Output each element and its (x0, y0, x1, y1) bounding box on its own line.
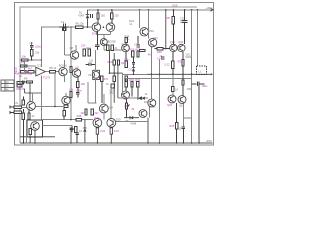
svg-text:10R: 10R (187, 87, 192, 91)
transistor Q22 (93, 116, 102, 127)
node dots feedback wire (41, 26, 89, 60)
svg-text:R26: R26 (130, 47, 135, 51)
svg-text:R14: R14 (86, 46, 91, 50)
svg-text:R20: R20 (108, 60, 113, 64)
label R24 gray (129, 19, 134, 26)
diode D1 column (78, 10, 89, 27)
wire input to Q5 (22, 107, 27, 109)
transistor Q9 (72, 65, 80, 77)
border frame outer (15, 3, 214, 146)
resistor R18 (111, 10, 120, 23)
svg-text:Q13: Q13 (153, 36, 158, 40)
wire VR label (124, 104, 135, 111)
wire row y66 (20, 65, 36, 67)
wire Q5 collector (32, 93, 34, 103)
capacitor C16 (109, 84, 114, 95)
resistor R45 (125, 79, 127, 91)
wire Q6 collector up (54, 72, 56, 107)
resistor R13 (81, 43, 86, 55)
output bus (147, 74, 213, 76)
transistor Q19 (122, 91, 130, 99)
protection box (27, 120, 43, 137)
svg-text:-45V: -45V (206, 139, 212, 143)
svg-text:Q9: Q9 (75, 65, 79, 69)
caps bottom mid (75, 133, 78, 143)
wire bus y74.3 (123, 73, 147, 75)
transistor Q14 driver (170, 40, 177, 52)
svg-text:5200: 5200 (186, 55, 192, 59)
wire drop x165.8 (165, 10, 167, 50)
svg-text:4k7: 4k7 (148, 52, 153, 56)
svg-text:4k7: 4k7 (94, 111, 99, 115)
svg-text:22k: 22k (35, 50, 40, 54)
svg-text:BC546: BC546 (59, 64, 67, 68)
border frame inner (20, 7, 197, 143)
capacitor C13 (69, 128, 72, 144)
svg-text:C14: C14 (157, 56, 162, 60)
transistor Q8 (70, 46, 79, 59)
capacitor C10 (134, 36, 140, 47)
wire x88 column (87, 82, 89, 103)
svg-text:R29: R29 (173, 4, 178, 8)
transistor Q1 (92, 23, 101, 36)
svg-text:D4: D4 (144, 100, 148, 104)
ground symbol (70, 126, 74, 132)
svg-text:R38: R38 (77, 114, 82, 118)
transistor Q2 (106, 23, 115, 32)
transistor Q10 current source (100, 39, 116, 46)
capacitor C15 (91, 14, 93, 18)
capacitor C2 on feedback wire (59, 20, 69, 30)
wire Q10 down (103, 46, 105, 51)
resistor R36 (80, 109, 87, 115)
svg-text:100n: 100n (202, 84, 208, 88)
svg-text:C9: C9 (129, 68, 133, 72)
svg-text:47p: 47p (109, 92, 114, 95)
wire Q18 collector up (172, 74, 174, 95)
resistor R46 on x71 (70, 67, 72, 73)
+45V connector tick (211, 8, 214, 11)
resistor R40 (110, 128, 119, 144)
vbe multiplier box (88, 70, 100, 79)
resistor R2 (22, 55, 28, 62)
resistor R21 (117, 60, 126, 65)
capacitor C6 (76, 88, 82, 98)
label header magenta (15, 71, 33, 75)
wire box bottoms (20, 130, 55, 143)
svg-text:4148: 4148 (78, 14, 84, 18)
wire drop x139.5 (139, 10, 141, 28)
svg-text:100n: 100n (35, 45, 41, 49)
svg-text:R9: R9 (24, 76, 28, 80)
resistor R30 (165, 52, 175, 74)
transistor Q20 (139, 110, 147, 118)
resistor R48 (107, 45, 109, 50)
wire Q3 collector (64, 60, 66, 69)
wire x122.6 column (122, 73, 124, 95)
node dots +45V rail (97, 9, 198, 11)
resistor R24 (122, 38, 128, 47)
wire column x31.7 (31, 42, 33, 46)
wire x110.9 column (110, 88, 112, 120)
svg-text:0.22: 0.22 (114, 129, 120, 133)
svg-text:100: 100 (81, 82, 86, 86)
svg-text:C10: C10 (134, 42, 139, 46)
resistor R29 column (166, 10, 175, 44)
potentiometer VR2 (125, 99, 129, 118)
signal table (1, 80, 14, 91)
svg-text:10k: 10k (22, 55, 27, 59)
wire Q21 (103, 94, 105, 120)
svg-text:100: 100 (166, 16, 171, 20)
svg-text:C2: C2 (61, 20, 65, 24)
wire node junction (25, 82, 41, 102)
resistor R35 (169, 103, 177, 143)
wire column x71 (70, 27, 72, 119)
resistor R32 (182, 74, 184, 95)
resistor R9 (24, 76, 33, 83)
transistor Q16 (178, 96, 186, 108)
node diff base (103, 26, 105, 28)
capacitor C14 (157, 56, 165, 60)
transistor Q21 (99, 104, 113, 113)
resistor R27 (136, 47, 141, 57)
resistor R31 (178, 52, 185, 74)
wire box to right y123 (43, 119, 94, 121)
svg-text:IN: IN (15, 101, 18, 105)
node dots rows (24, 59, 33, 67)
resistor R14 (86, 46, 91, 56)
resistor R12 in box (29, 129, 31, 135)
svg-text:BC556: BC556 (108, 39, 116, 43)
wire drop x191.6 (191, 10, 193, 143)
svg-text:C4: C4 (30, 41, 34, 45)
svg-text:IC1: IC1 (37, 63, 42, 67)
resistor R43 left column (22, 97, 24, 106)
transistor Q17 (148, 99, 156, 108)
wire row y82 (20, 81, 33, 83)
wire x95.6 (95, 50, 97, 103)
svg-text:R8 1k: R8 1k (49, 66, 56, 70)
resistor R16 (69, 88, 74, 98)
wire y121.5 (116, 121, 148, 123)
transistor Q7 (31, 122, 40, 131)
svg-text:Q18: Q18 (167, 103, 172, 107)
capacitor C3 (30, 41, 42, 49)
svg-text:2SC: 2SC (149, 29, 154, 33)
svg-text:4148: 4148 (130, 122, 136, 126)
wire row y72 (20, 71, 36, 73)
resistor R44 (172, 86, 179, 91)
resistor R39 (96, 128, 105, 144)
wire bus y78.7 (124, 78, 192, 80)
capacitor C12 (177, 126, 186, 143)
svg-text:0.22: 0.22 (165, 62, 171, 66)
wire box to right y125.6 (43, 125, 73, 127)
svg-text:0.22: 0.22 (100, 129, 106, 133)
wire op-amp output (45, 71, 59, 73)
resistor R7 (28, 66, 34, 73)
resistor R33 (129, 78, 134, 97)
svg-text:Q14: Q14 (170, 40, 175, 44)
diode D4 (142, 97, 148, 105)
diode D2 (132, 64, 135, 74)
svg-text:R31: R31 (178, 59, 183, 63)
resistor R8 (49, 66, 56, 73)
wire y50 to VAS (104, 49, 122, 51)
resistor R10 (22, 109, 24, 143)
transistor Q12 (140, 28, 154, 36)
svg-text:R28: R28 (157, 50, 162, 54)
junction dots output bus (133, 74, 184, 76)
svg-text:AMP MODULE: AMP MODULE (15, 71, 33, 75)
wire Q16 down (183, 103, 191, 126)
resistor R22 (113, 76, 115, 82)
resistor R47 horizontal (139, 49, 145, 51)
svg-text:100: 100 (124, 57, 129, 61)
wires center columns (106, 50, 123, 103)
wire diff emitters (96, 32, 110, 39)
resistor R5 (31, 50, 40, 60)
label Q11 gray (124, 34, 129, 41)
svg-text:150: 150 (114, 13, 119, 17)
input connector J1 (10, 101, 22, 114)
resistor R20 (108, 60, 116, 65)
svg-text:INPUT: INPUT (16, 87, 25, 91)
op-amp U1 (36, 63, 51, 79)
wire drop x197.5 (197, 10, 199, 66)
svg-text:R34: R34 (135, 78, 140, 82)
svg-text:Q8: Q8 (70, 46, 74, 50)
wire Q6 emitter down (54, 106, 56, 108)
wire feedback top (41, 27, 92, 67)
resistor R28 horizontal (155, 47, 170, 54)
wire Q17 emitter down (148, 107, 150, 118)
-45V rail (20, 142, 213, 144)
resistor R19 (101, 76, 109, 103)
resistor R4 (19, 71, 26, 78)
electrolytic C11 (180, 10, 188, 44)
wire inter-row x24.6 (24, 60, 26, 72)
wire Q5 to right (35, 105, 63, 107)
capacitor C7 (95, 32, 99, 51)
transistor Q23 (107, 117, 121, 127)
svg-text:4k7: 4k7 (28, 66, 33, 70)
wire y102.8 (88, 102, 96, 104)
svg-text:2SC: 2SC (124, 37, 129, 41)
transistor Q18 (167, 95, 176, 107)
transistor Q15 output (178, 40, 185, 52)
wire Q3 emitter (64, 75, 66, 82)
wire bias bus y98.2 (118, 97, 148, 99)
svg-text:R33: R33 (129, 78, 134, 82)
diode D6 (83, 120, 86, 143)
zobel wire (187, 82, 208, 143)
svg-text:VR: VR (88, 73, 92, 77)
resistor R41 (75, 127, 83, 133)
capacitor C8 (86, 59, 96, 66)
svg-text:470: 470 (104, 77, 109, 81)
svg-text:2SD: 2SD (116, 117, 121, 121)
svg-text:100u: 100u (180, 19, 186, 23)
terminal box left (16, 80, 26, 91)
svg-text:VR2: VR2 (124, 104, 130, 108)
wire x159.4 (158, 60, 160, 144)
resistor R3 (21, 61, 27, 68)
wire C2 branch to Q8 (64, 31, 70, 55)
svg-text:TL071: TL071 (43, 75, 51, 79)
resistor R11 (28, 109, 35, 119)
resistor R6 on feedback wire (76, 22, 85, 29)
diode D3 (138, 97, 141, 100)
wire x148 bottom (147, 118, 149, 144)
emitter cluster Q6 (64, 105, 68, 108)
resistor R15 (77, 76, 86, 87)
svg-text:C8: C8 (90, 59, 94, 63)
transistor Q13 (148, 36, 158, 47)
svg-text:Q15: Q15 (178, 40, 183, 44)
svg-text:10k: 10k (69, 88, 74, 92)
trimmer under C2 (63, 28, 67, 30)
inductor box L1 dashed (197, 66, 207, 74)
resistor R17 (97, 10, 106, 23)
resistor R25 (124, 52, 129, 67)
capacitor C9 (129, 57, 136, 72)
svg-text:150: 150 (101, 13, 106, 17)
transistor Q3 (59, 64, 67, 76)
diode D5 on wire (124, 116, 139, 126)
transistor Q11 VAS (122, 44, 130, 52)
svg-text:Q22: Q22 (94, 116, 99, 120)
wire drop x148.6 (148, 10, 150, 39)
transistor Q6 (62, 96, 70, 104)
wire row y60 (20, 59, 41, 61)
wire Q8 collector (75, 45, 77, 52)
+45V rail (88, 9, 213, 11)
resistor R42 (63, 108, 65, 120)
svg-text:2SC: 2SC (151, 104, 156, 108)
resistor R38 horizontal (76, 114, 82, 121)
svg-text:R35: R35 (169, 124, 174, 128)
wire VAS column x151.4 (151, 47, 153, 99)
resistor R37 (91, 109, 99, 115)
svg-text:R6 22k: R6 22k (76, 22, 85, 26)
transistor Q5 (27, 102, 36, 111)
svg-text:+45V: +45V (205, 6, 212, 10)
label Q15 type gray (186, 52, 192, 59)
resistor R23 (125, 76, 127, 82)
svg-text:100n: 100n (76, 89, 82, 93)
wire R11 down (26, 119, 28, 143)
resistor R26 (130, 47, 135, 57)
capacitor C5 (22, 80, 24, 83)
svg-text:47k: 47k (21, 61, 26, 65)
junction dots -45V rail (23, 142, 200, 144)
wire y119.6 row (70, 119, 72, 121)
resistor R34 (135, 78, 140, 97)
resistor R49 (111, 45, 118, 50)
